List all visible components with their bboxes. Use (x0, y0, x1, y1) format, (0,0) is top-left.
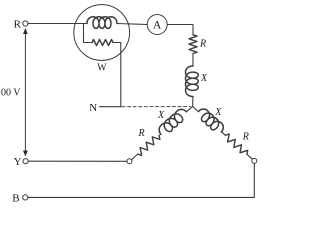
wire inductor to star point (192, 97, 194, 107)
node right phase open terminal (252, 158, 257, 163)
wire wattmeter coil to ammeter (117, 24, 147, 25)
wire B line (28, 196, 254, 198)
svg-text:X: X (214, 107, 222, 118)
wire star to right-phase inductor (193, 106, 199, 111)
resistor R top branch (189, 35, 197, 54)
wire left inductor to left resistor (159, 134, 161, 136)
arrowhead up (23, 28, 28, 34)
terminal B (23, 195, 28, 200)
resistor R right phase (225, 134, 247, 154)
wire wattmeter resistor to neutral N (113, 43, 121, 107)
wire N solid segment (100, 106, 121, 108)
node left phase open terminal (127, 159, 132, 164)
svg-text:N: N (89, 102, 97, 114)
ammeter A circle (147, 15, 167, 35)
wire wattmeter coil tap down to pressure-coil resistor (84, 24, 93, 43)
wire Y line (28, 160, 127, 162)
svg-text:A: A (153, 20, 162, 32)
svg-text:R: R (137, 128, 144, 139)
inductor X top branch (186, 66, 199, 96)
wire right terminal down to B line (253, 163, 255, 197)
voltage dimension arrow 400V (24, 32, 26, 153)
svg-text:Y: Y (14, 156, 22, 168)
resistor R left phase (138, 136, 160, 156)
wire right resistor to terminal circle (247, 154, 253, 159)
inductor X left phase (159, 109, 186, 134)
svg-text:R: R (14, 18, 22, 30)
terminal R (23, 21, 28, 26)
wattmeter W circle (74, 5, 130, 61)
wire resistor to inductor top branch (192, 54, 194, 67)
arrowhead down (23, 151, 28, 157)
svg-text:X: X (157, 110, 165, 121)
svg-text:R: R (199, 38, 206, 49)
wire ammeter to top of R branch (167, 25, 193, 35)
inductor wattmeter current coil (87, 17, 117, 29)
wire R terminal to wattmeter coil (28, 23, 87, 25)
svg-text:B: B (12, 192, 19, 204)
wire left resistor to Y terminal circle (132, 154, 138, 160)
wire right inductor to right resistor (221, 132, 225, 135)
resistor wattmeter pressure coil (92, 40, 113, 46)
inductor X right phase (198, 109, 223, 132)
terminal Y (23, 159, 28, 164)
svg-text:R: R (242, 132, 249, 143)
wire N dashed to star point (122, 106, 190, 108)
wire star to left-phase inductor (186, 106, 192, 111)
svg-text:00 V: 00 V (1, 88, 21, 99)
svg-text:W: W (97, 63, 107, 74)
svg-text:X: X (200, 73, 208, 84)
